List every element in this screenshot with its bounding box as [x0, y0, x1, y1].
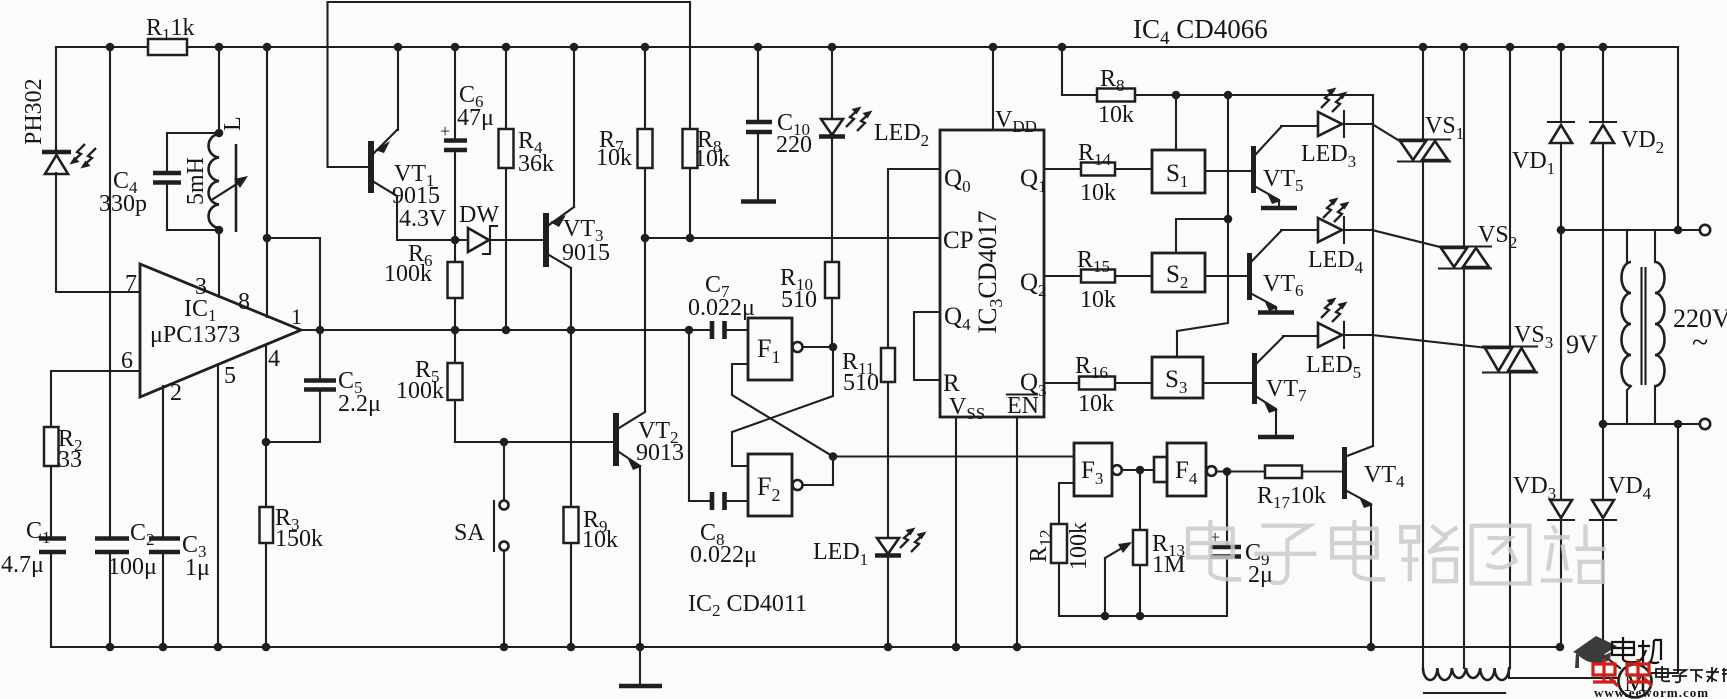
svg-text:10k: 10k: [1080, 287, 1116, 313]
wire F1 output: [803, 346, 834, 348]
node bus-C2: [106, 43, 115, 52]
svg-text:100k: 100k: [1066, 522, 1092, 570]
wire pin5 column: [217, 364, 219, 647]
wire LED3 gate diagonal: [1372, 124, 1398, 140]
capacitor C2 100u: [95, 520, 157, 580]
wire LED5 gate diagonal: [1372, 335, 1488, 348]
capacitor C4 330p: [99, 168, 181, 217]
node bus-C6: [451, 43, 460, 52]
gate F3: [1074, 443, 1122, 496]
transistor VT7: [1252, 337, 1307, 437]
wire pin4 column: [265, 345, 267, 647]
svg-text:EN: EN: [1007, 393, 1039, 419]
resistor R10 510: [780, 262, 839, 346]
resistor R16 10k: [1075, 353, 1152, 417]
capacitor C6 47u: [440, 47, 494, 240]
resistor R9 10k: [564, 330, 619, 647]
svg-text:VD2: VD2: [1621, 127, 1664, 157]
node tank top: [215, 129, 224, 138]
ground symbol: [639, 647, 641, 685]
wire F3 output: [1122, 469, 1155, 471]
diode VD3: [1513, 230, 1574, 647]
resistor R7 10k: [596, 47, 653, 238]
node bus-R4: [502, 43, 511, 52]
node gnd pin5: [214, 643, 223, 652]
svg-text:R12: R12: [1026, 529, 1055, 562]
wire LED4 gate diagonal: [1372, 230, 1444, 248]
wire Q4 to R: [914, 312, 940, 380]
capacitor C9 2u: [1210, 472, 1273, 617]
wire bus right drop: [1677, 47, 1679, 230]
wire flipflop output to F3: [833, 455, 1074, 457]
watermark dianzixiazaizhan black: [1656, 666, 1727, 682]
node 9V-VD1: [1557, 226, 1566, 235]
watermark big gray: [1188, 520, 1606, 583]
node bus-VDD: [989, 43, 998, 52]
wire pin8 to output: [267, 238, 320, 330]
node pin4-C5: [262, 438, 271, 447]
svg-text:10k: 10k: [1080, 180, 1116, 206]
wire CP line: [645, 237, 940, 239]
node bus-VD2: [1599, 43, 1608, 52]
wire pin2 column: [162, 386, 164, 647]
transistor VT6: [1247, 231, 1304, 313]
resistor R2 33: [44, 426, 83, 473]
wire motor feed right: [1652, 424, 1678, 673]
wire C1 to ground bus: [50, 554, 52, 647]
diode VD2: [1590, 47, 1664, 424]
svg-text:F2: F2: [757, 472, 780, 505]
resistor R17 10k: [1257, 466, 1342, 513]
transistor VT3 9015: [543, 207, 610, 268]
svg-text:36k: 36k: [518, 151, 554, 177]
wire R5 to VT2 base: [455, 441, 613, 443]
triac VS1: [1398, 47, 1464, 668]
transistor VT2 9013: [613, 412, 684, 470]
transistor VT5: [1251, 127, 1304, 208]
node bus-R7: [641, 43, 650, 52]
wire VT3 emitter: [573, 47, 575, 207]
switch SA: [454, 442, 509, 647]
capacitor C3 1u: [149, 532, 210, 581]
wire timing loop bottom: [1059, 615, 1227, 617]
capacitor C1 4.7u: [1, 518, 66, 578]
svg-text:220: 220: [776, 132, 812, 158]
svg-text:10k: 10k: [694, 146, 730, 172]
motor M: [1619, 665, 1652, 698]
node output-R4: [502, 326, 511, 335]
inductor L 5mH: [183, 116, 248, 232]
wire pin3: [218, 230, 220, 297]
wire tank top feed: [218, 47, 220, 133]
svg-text:VD4: VD4: [1608, 473, 1652, 503]
svg-text:F1: F1: [757, 334, 780, 367]
resistor R1 1k: [146, 15, 195, 55]
diode VD4: [1590, 424, 1652, 668]
wire Q1 to R14: [1044, 168, 1081, 170]
svg-text:7: 7: [125, 271, 137, 297]
wm char dian2: [1332, 520, 1385, 579]
svg-text:47μ: 47μ: [457, 105, 494, 131]
analog switch S1: [1152, 95, 1205, 193]
wire VT3 collector: [570, 268, 572, 330]
svg-text:1M: 1M: [1152, 552, 1185, 578]
svg-text:R11k: R11k: [146, 15, 195, 44]
svg-text:5mH: 5mH: [183, 157, 209, 205]
svg-text:150k: 150k: [275, 526, 323, 552]
svg-text:VT4: VT4: [1364, 462, 1405, 491]
wire IC1 output: [301, 329, 689, 331]
svg-text:R15: R15: [1077, 247, 1110, 276]
op-amp IC1 uPC1373: [121, 264, 302, 406]
svg-text:IC3CD4017: IC3CD4017: [973, 210, 1006, 333]
svg-text:4.7μ: 4.7μ: [1, 552, 44, 578]
motor windings: [1423, 668, 1619, 693]
svg-text:LED2: LED2: [874, 120, 929, 150]
node gnd C3: [159, 643, 168, 652]
resistor R11 510: [842, 348, 895, 538]
node tank bottom: [215, 226, 224, 235]
wire ground bus: [51, 646, 1560, 648]
resistor R14 10k: [1078, 140, 1152, 206]
wire switched supply column: [1372, 95, 1374, 446]
node S2 chain: [1224, 215, 1233, 224]
svg-text:LED5: LED5: [1306, 352, 1361, 382]
node bus-pin8: [263, 43, 272, 52]
svg-text:330p: 330p: [99, 191, 147, 217]
wire S3 to VT7: [1203, 382, 1252, 384]
wire S2 to VT6: [1205, 275, 1247, 277]
svg-text:100k: 100k: [396, 378, 444, 404]
resistor R4 36k: [499, 47, 555, 330]
svg-text:1μ: 1μ: [185, 555, 210, 581]
wire F2 output: [803, 457, 834, 486]
node gnd LED1: [884, 643, 893, 652]
node bus-C10: [754, 43, 763, 52]
terminal lower: [1678, 419, 1710, 429]
svg-text:2.2μ: 2.2μ: [338, 391, 381, 417]
wire F1 lower input crossover: [732, 364, 833, 457]
svg-text:VS2: VS2: [1478, 222, 1517, 252]
node bus-R8b: [1058, 43, 1067, 52]
node bus-LED2: [828, 43, 837, 52]
wm char tu: [1472, 526, 1530, 584]
wire tank frame: [167, 133, 219, 230]
svg-text:IC1: IC1: [184, 296, 217, 325]
node pin8 tap: [263, 234, 272, 243]
svg-text:Q3: Q3: [1020, 369, 1047, 400]
transformer T 9V/220V: [1566, 230, 1727, 424]
svg-text:+: +: [440, 121, 450, 141]
svg-text:9013: 9013: [636, 440, 684, 466]
node output-C7C8: [685, 326, 694, 335]
svg-text:4.3V: 4.3V: [399, 206, 447, 232]
capacitor C10 220: [746, 47, 812, 199]
svg-text:μPC1373: μPC1373: [150, 322, 240, 348]
svg-text:VT7: VT7: [1266, 376, 1307, 405]
node F2 out: [829, 452, 838, 461]
diode VD1: [1512, 47, 1574, 230]
wire VSS to ground: [955, 417, 957, 647]
wire Q3 to R16: [1044, 382, 1079, 384]
svg-text:3: 3: [195, 274, 207, 300]
svg-text:DW: DW: [459, 202, 499, 228]
svg-text:100μ: 100μ: [108, 554, 157, 580]
watermark graduation cap: [1573, 636, 1617, 668]
LED LED5: [1283, 298, 1372, 383]
wire VT2 emitter: [639, 466, 641, 647]
wire F4 output to R17: [1216, 470, 1265, 472]
wire S2S3 chain column: [1177, 95, 1228, 357]
node 9V-terminal: [1674, 226, 1683, 235]
svg-text:S3: S3: [1165, 366, 1187, 397]
svg-text:100k: 100k: [384, 261, 432, 287]
node output-pin8: [316, 326, 325, 335]
wire pin8 column: [266, 47, 268, 317]
node R8b-S2S3: [1224, 91, 1233, 100]
terminal upper: [1678, 225, 1710, 235]
wire top supply bus (right of R1): [187, 46, 1678, 48]
watermark chongchong red: [1593, 659, 1652, 686]
F4 input stub box: [1154, 457, 1167, 482]
node bus-VT1 emitter: [394, 43, 403, 52]
resistor R15 10k: [1077, 247, 1152, 313]
svg-text:S1: S1: [1166, 160, 1188, 191]
wire 9V rail: [1561, 229, 1678, 231]
LED LED1: [813, 528, 927, 648]
capacitor C7 0.022u: [688, 272, 755, 339]
svg-text:10k: 10k: [1078, 391, 1114, 417]
LED LED4: [1281, 198, 1372, 278]
svg-text:SA: SA: [454, 520, 485, 546]
node gnd VD3: [1556, 643, 1565, 652]
capacitor C5 2.2u: [266, 330, 381, 442]
transistor VT4: [1342, 446, 1405, 647]
svg-text:F3: F3: [1081, 457, 1103, 488]
svg-text:VSS: VSS: [949, 394, 985, 423]
node bus-VS3: [1506, 43, 1515, 52]
svg-text:R8: R8: [1100, 66, 1125, 95]
svg-text:IC4 CD4066: IC4 CD4066: [1133, 14, 1268, 49]
node output-R6: [451, 326, 460, 335]
wire VT1 collector to 4.3V rail: [397, 196, 468, 240]
node gnd VT4: [1367, 643, 1376, 652]
node CP-R7: [641, 234, 650, 243]
node 4.3V-C6-R6: [451, 236, 460, 245]
gate F4: [1167, 443, 1216, 496]
svg-text:10k: 10k: [582, 527, 618, 553]
resistor R8 10k (switch bias): [1062, 47, 1373, 128]
svg-text:9015: 9015: [562, 240, 610, 266]
svg-text:R1710k: R1710k: [1257, 483, 1326, 512]
wm char dian1: [1188, 520, 1241, 579]
svg-text:VD3: VD3: [1513, 473, 1556, 503]
wm char zi: [1254, 526, 1316, 583]
svg-text:L: L: [220, 116, 246, 131]
node bus-VT3 emitter: [570, 43, 579, 52]
svg-text:VDD: VDD: [995, 107, 1037, 136]
wm char lu: [1401, 526, 1459, 581]
LED LED2: [819, 47, 929, 262]
svg-text:510: 510: [843, 370, 879, 396]
resistor R8 10k (vertical): [683, 2, 731, 238]
svg-text:VT6: VT6: [1263, 271, 1304, 300]
svg-text:Q4: Q4: [944, 303, 971, 334]
wire F2 upper input crossover: [732, 347, 833, 466]
svg-text:www.eeworm.com: www.eeworm.com: [1594, 685, 1709, 699]
transistor VT1 9015: [368, 130, 440, 209]
wire PH302 branch: [56, 47, 140, 292]
node gnd R9: [567, 643, 576, 652]
svg-text:LED3: LED3: [1301, 141, 1356, 171]
node gnd SA: [500, 643, 509, 652]
wire S1 to VT5: [1205, 170, 1251, 172]
svg-text:VT5: VT5: [1263, 166, 1304, 195]
photodiode PH302: [21, 78, 96, 174]
wire C2 column: [109, 47, 111, 647]
node gnd VT2: [636, 643, 645, 652]
svg-text:0.022μ: 0.022μ: [690, 542, 757, 568]
wire VDD: [992, 47, 994, 130]
wire Q0 to R11: [888, 169, 940, 348]
svg-text:5: 5: [224, 363, 236, 389]
svg-text:Q0: Q0: [944, 165, 971, 196]
svg-text:Q1: Q1: [1020, 165, 1047, 196]
svg-text:R14: R14: [1078, 140, 1112, 169]
wire mains lower rail: [1603, 423, 1678, 425]
label dianji (motor): [1612, 637, 1661, 663]
resistor R6 100k: [384, 240, 463, 330]
svg-text:10k: 10k: [596, 145, 632, 171]
svg-text:C1: C1: [26, 518, 51, 547]
svg-text:VD1: VD1: [1512, 148, 1555, 178]
resistor R3 150k: [260, 505, 324, 552]
wire EN to ground: [1016, 417, 1018, 647]
svg-text:R16: R16: [1075, 353, 1108, 382]
node bus-VS2: [1460, 43, 1469, 52]
node CP-R8: [686, 234, 695, 243]
resistor R13 1M potentiometer: [1105, 470, 1185, 616]
wm char zhan: [1541, 524, 1606, 582]
node F3-R13: [1136, 466, 1145, 475]
svg-text:S2: S2: [1166, 261, 1188, 292]
svg-text:33: 33: [58, 447, 82, 473]
wire R7 to VT2 collector: [644, 238, 646, 411]
analog switch S2: [1152, 219, 1228, 292]
node loop-R13 wiper: [1101, 612, 1110, 621]
wire F3 feedback tap to R12: [1059, 483, 1074, 524]
node VD2-transformer: [1599, 420, 1608, 429]
svg-text:C2: C2: [130, 520, 155, 549]
svg-text:LED1: LED1: [813, 539, 868, 569]
wire R2 to C1: [50, 466, 52, 536]
node bus-tank: [215, 43, 224, 52]
node F1 out: [829, 343, 838, 352]
node gnd C2: [106, 643, 115, 652]
svg-text:F4: F4: [1175, 457, 1198, 488]
svg-text:LED4: LED4: [1308, 247, 1364, 277]
triac VS3: [1483, 47, 1553, 668]
gate F1: [748, 318, 803, 380]
svg-text:VS3: VS3: [1514, 322, 1553, 352]
svg-text:2μ: 2μ: [1248, 562, 1273, 588]
capacitor C8 0.022u: [689, 330, 757, 568]
ground C10: [741, 199, 776, 204]
node SA tap: [500, 438, 509, 447]
svg-text:8: 8: [238, 289, 250, 315]
LED LED3: [1281, 88, 1372, 172]
svg-text:10k: 10k: [1098, 102, 1134, 128]
svg-text:9V: 9V: [1566, 330, 1598, 359]
node bus-VD1: [1557, 43, 1566, 52]
svg-text:510: 510: [781, 287, 817, 313]
wire pin6 to R2: [51, 371, 140, 427]
svg-text:0.022μ: 0.022μ: [688, 295, 755, 321]
resistor R12 100k: [1026, 522, 1092, 616]
svg-text:4: 4: [268, 346, 280, 372]
node F4-C9: [1223, 467, 1232, 476]
node gnd R3: [262, 643, 271, 652]
svg-text:2: 2: [170, 380, 182, 406]
gate F2: [748, 454, 803, 516]
node gnd EN: [1013, 643, 1022, 652]
svg-text:~: ~: [1692, 326, 1708, 359]
wire VT1 base feedback loop: [328, 2, 691, 167]
node lower terminal: [1674, 420, 1683, 429]
wire top supply bus (left of R1): [56, 46, 148, 48]
svg-text:PH302: PH302: [21, 78, 47, 145]
svg-text:CP: CP: [943, 227, 974, 254]
zener diode DW: [459, 202, 543, 254]
svg-text:IC2 CD4011: IC2 CD4011: [688, 591, 807, 620]
IC IC3 CD4017: [940, 130, 1047, 423]
analog switch S3: [1152, 357, 1203, 398]
wire VT1 emitter: [397, 47, 399, 130]
svg-text:R: R: [943, 370, 960, 397]
wire Q2 to R15: [1044, 275, 1081, 277]
node bus-VS1: [1419, 43, 1428, 52]
node R8b-S1: [1172, 91, 1181, 100]
resistor R5 100k: [396, 330, 463, 442]
svg-text:VS1: VS1: [1425, 113, 1464, 143]
node loop-R13: [1136, 612, 1145, 621]
svg-text:Q2: Q2: [1020, 269, 1047, 300]
node output-VT3: [567, 326, 576, 335]
triac VS2: [1439, 47, 1517, 668]
svg-text:1: 1: [291, 304, 302, 329]
node gnd VSS: [952, 643, 961, 652]
